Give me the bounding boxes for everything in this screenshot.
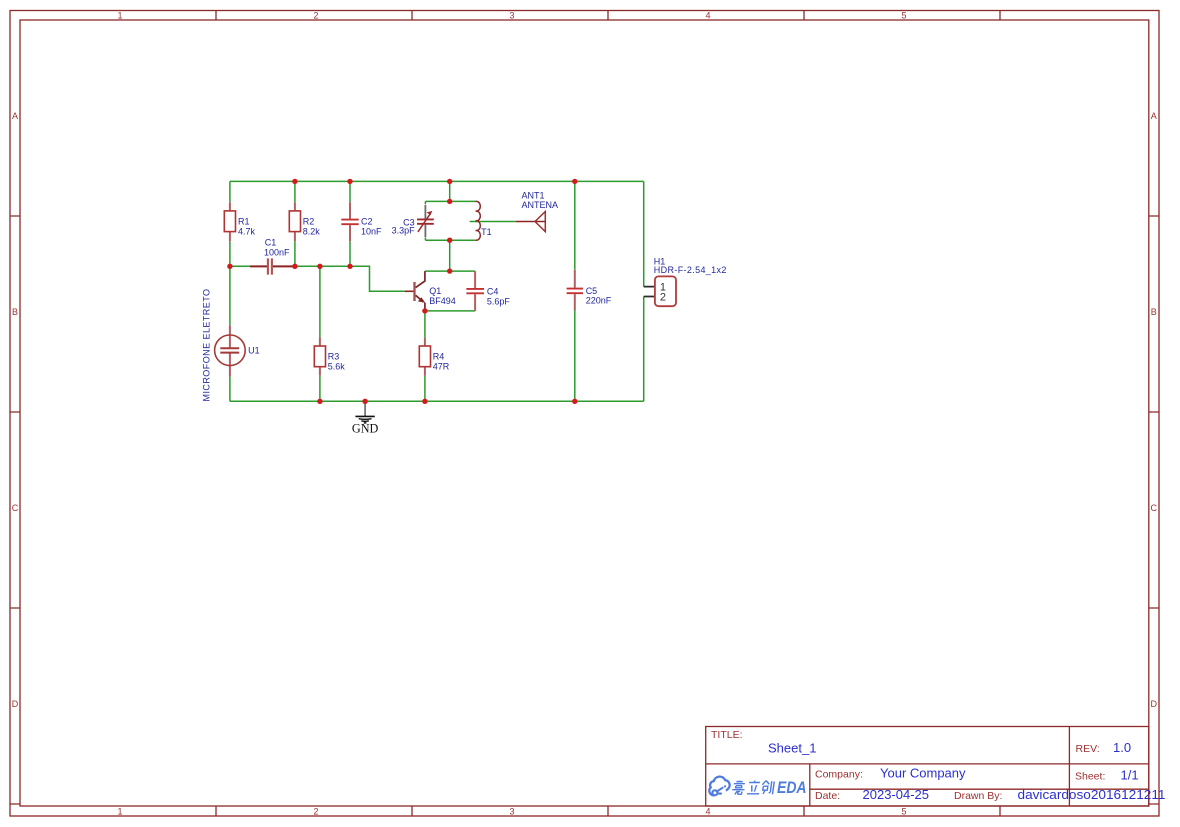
svg-text:5.6k: 5.6k [328, 362, 346, 372]
junction dots [227, 179, 577, 404]
column ticks top [216, 11, 1000, 21]
wire C2 branch lower [349, 241, 351, 266]
SCHEMATIC [201, 179, 726, 436]
svg-text:220nF: 220nF [586, 296, 612, 306]
svg-text:Your Company: Your Company [880, 765, 966, 780]
svg-text:REV:: REV: [1076, 743, 1100, 755]
connector H1 [644, 256, 727, 306]
resistor R1 [224, 202, 255, 241]
ground [352, 403, 379, 436]
svg-text:D: D [12, 699, 19, 709]
logo branch line [717, 786, 725, 791]
node mid R2 [292, 264, 297, 269]
column labels bottom [117, 806, 906, 816]
wire right rail lower [643, 297, 645, 402]
svg-text:4.7k: 4.7k [238, 227, 256, 237]
title block logo cell divider [809, 764, 811, 806]
capacitor C4 [466, 271, 510, 311]
svg-text:R1: R1 [238, 217, 250, 227]
svg-text:D: D [1151, 699, 1158, 709]
svg-text:Q1: Q1 [429, 286, 441, 296]
svg-text:2: 2 [660, 292, 666, 304]
svg-text:10nF: 10nF [361, 227, 382, 237]
node collector [447, 268, 452, 273]
microphone U1 [201, 289, 259, 402]
node bottom gnd [362, 399, 367, 404]
row ticks right [1149, 216, 1159, 804]
node mid R3 [317, 264, 322, 269]
antenna ANT1 [516, 190, 558, 231]
node top C5 [572, 179, 577, 184]
logo cloud bottom segment [718, 793, 721, 795]
wire tank to collector [449, 240, 451, 271]
node tank top [447, 199, 452, 204]
svg-text:4: 4 [705, 806, 710, 816]
svg-text:C2: C2 [361, 217, 373, 227]
svg-text:Sheet:: Sheet: [1075, 770, 1105, 782]
node top C2 [347, 179, 352, 184]
capacitor C5 [567, 270, 612, 311]
node emitter [422, 308, 427, 313]
wire R3 branch upper [319, 266, 321, 337]
title block row divider 2 [810, 788, 1149, 790]
column labels top [117, 11, 906, 21]
svg-text:3: 3 [509, 806, 514, 816]
node mid left [227, 264, 232, 269]
svg-text:R3: R3 [328, 352, 340, 362]
row labels left [12, 111, 19, 709]
svg-text:ANTENA: ANTENA [522, 200, 559, 210]
svg-text:5: 5 [901, 11, 906, 21]
wire tank left corners [424, 201, 426, 240]
TITLEBLOCK [706, 727, 1166, 807]
node bottom C5 [572, 399, 577, 404]
wire R2 branch upper [294, 181, 296, 202]
svg-text:3: 3 [509, 11, 514, 21]
wire left rail upper [229, 181, 231, 202]
logo node circle [712, 790, 717, 795]
node mid C2 [347, 264, 352, 269]
wire bottom rail [230, 400, 644, 402]
wire emitter drop upper [424, 311, 426, 338]
wire R2 branch lower [294, 241, 296, 266]
wire left rail lower [229, 377, 231, 402]
wire mid to base [295, 266, 405, 291]
title block outline [706, 727, 1149, 807]
title block rev column divider [1068, 727, 1070, 807]
wire tank drop [449, 181, 451, 201]
node bottom R4 [422, 399, 427, 404]
svg-text:4: 4 [705, 11, 710, 21]
svg-text:A: A [12, 111, 18, 121]
logo chinese char li [747, 781, 761, 794]
svg-text:C: C [1151, 503, 1158, 513]
svg-text:2: 2 [313, 11, 318, 21]
svg-text:C: C [12, 503, 19, 513]
wire C2 branch upper [349, 181, 351, 202]
transistor Q1 [405, 271, 456, 311]
wire left rail middle [229, 241, 231, 325]
wire collector rail [425, 270, 475, 272]
svg-text:1: 1 [117, 806, 122, 816]
svg-text:TITLE:: TITLE: [711, 729, 743, 741]
svg-text:47R: 47R [433, 362, 450, 372]
node tank bottom [447, 238, 452, 243]
svg-text:C5: C5 [586, 286, 598, 296]
wire R3 branch lower [319, 376, 321, 402]
capacitor C1 [250, 237, 295, 274]
svg-text:MICROFONE ELETRETO: MICROFONE ELETRETO [201, 289, 211, 402]
svg-text:100nF: 100nF [264, 247, 290, 257]
svg-text:Date:: Date: [815, 790, 840, 802]
wire emitter rail [425, 310, 475, 312]
svg-text:R2: R2 [303, 217, 315, 227]
svg-text:HDR-F-2.54_1x2: HDR-F-2.54_1x2 [654, 265, 727, 275]
svg-text:1.0: 1.0 [1113, 740, 1131, 755]
wire emitter drop lower [424, 376, 426, 401]
svg-text:C1: C1 [265, 237, 277, 247]
svg-text:1/1: 1/1 [1121, 767, 1139, 782]
logo chinese char chuang [761, 781, 774, 795]
wire tank bottom [425, 239, 475, 241]
row labels right [1151, 111, 1158, 709]
svg-text:1: 1 [117, 11, 122, 21]
resistor R2 [289, 202, 320, 241]
svg-text:5: 5 [901, 806, 906, 816]
title block row divider 1 [706, 763, 1149, 765]
svg-text:C4: C4 [487, 287, 499, 297]
svg-text:GND: GND [352, 422, 379, 436]
svg-text:5.6pF: 5.6pF [487, 297, 511, 307]
logo cloud [709, 777, 729, 796]
capacitor C2 [341, 202, 382, 241]
node top R2 [292, 179, 297, 184]
svg-text:2023-04-25: 2023-04-25 [863, 787, 930, 802]
svg-text:U1: U1 [248, 346, 260, 356]
row ticks left [10, 216, 20, 804]
svg-text:3.3pF: 3.3pF [392, 226, 416, 236]
svg-text:2: 2 [313, 806, 318, 816]
inductor T1 [476, 201, 492, 240]
svg-text:B: B [1151, 307, 1157, 317]
svg-text:Company:: Company: [815, 768, 863, 780]
wire top rail [230, 180, 644, 182]
svg-text:EDA: EDA [777, 779, 807, 797]
resistor R3 [314, 337, 345, 376]
logo JLCEDA [709, 777, 729, 796]
column ticks bottom [216, 806, 1000, 816]
svg-text:Sheet_1: Sheet_1 [768, 740, 816, 755]
svg-text:A: A [1151, 111, 1157, 121]
wire mid left [230, 265, 250, 267]
svg-text:Drawn By:: Drawn By: [954, 790, 1002, 802]
resistor R4 [419, 338, 450, 376]
logo chinese char jia [732, 781, 746, 795]
capacitor C3 variable [392, 205, 434, 237]
wire tank top [425, 200, 475, 202]
svg-text:8.2k: 8.2k [303, 227, 321, 237]
svg-text:B: B [12, 307, 18, 317]
node bottom R3 [317, 399, 322, 404]
node top tank [447, 179, 452, 184]
svg-text:T1: T1 [481, 227, 492, 237]
svg-text:R4: R4 [433, 352, 445, 362]
svg-text:ANT1: ANT1 [522, 190, 545, 200]
wire antenna tap [470, 221, 516, 223]
wire right rail upper [643, 181, 645, 286]
svg-text:davicardoso2016121211: davicardoso2016121211 [1018, 787, 1166, 802]
wire C5 branch lower [574, 311, 576, 402]
svg-text:BF494: BF494 [429, 296, 456, 306]
wire C5 branch upper [574, 181, 576, 269]
